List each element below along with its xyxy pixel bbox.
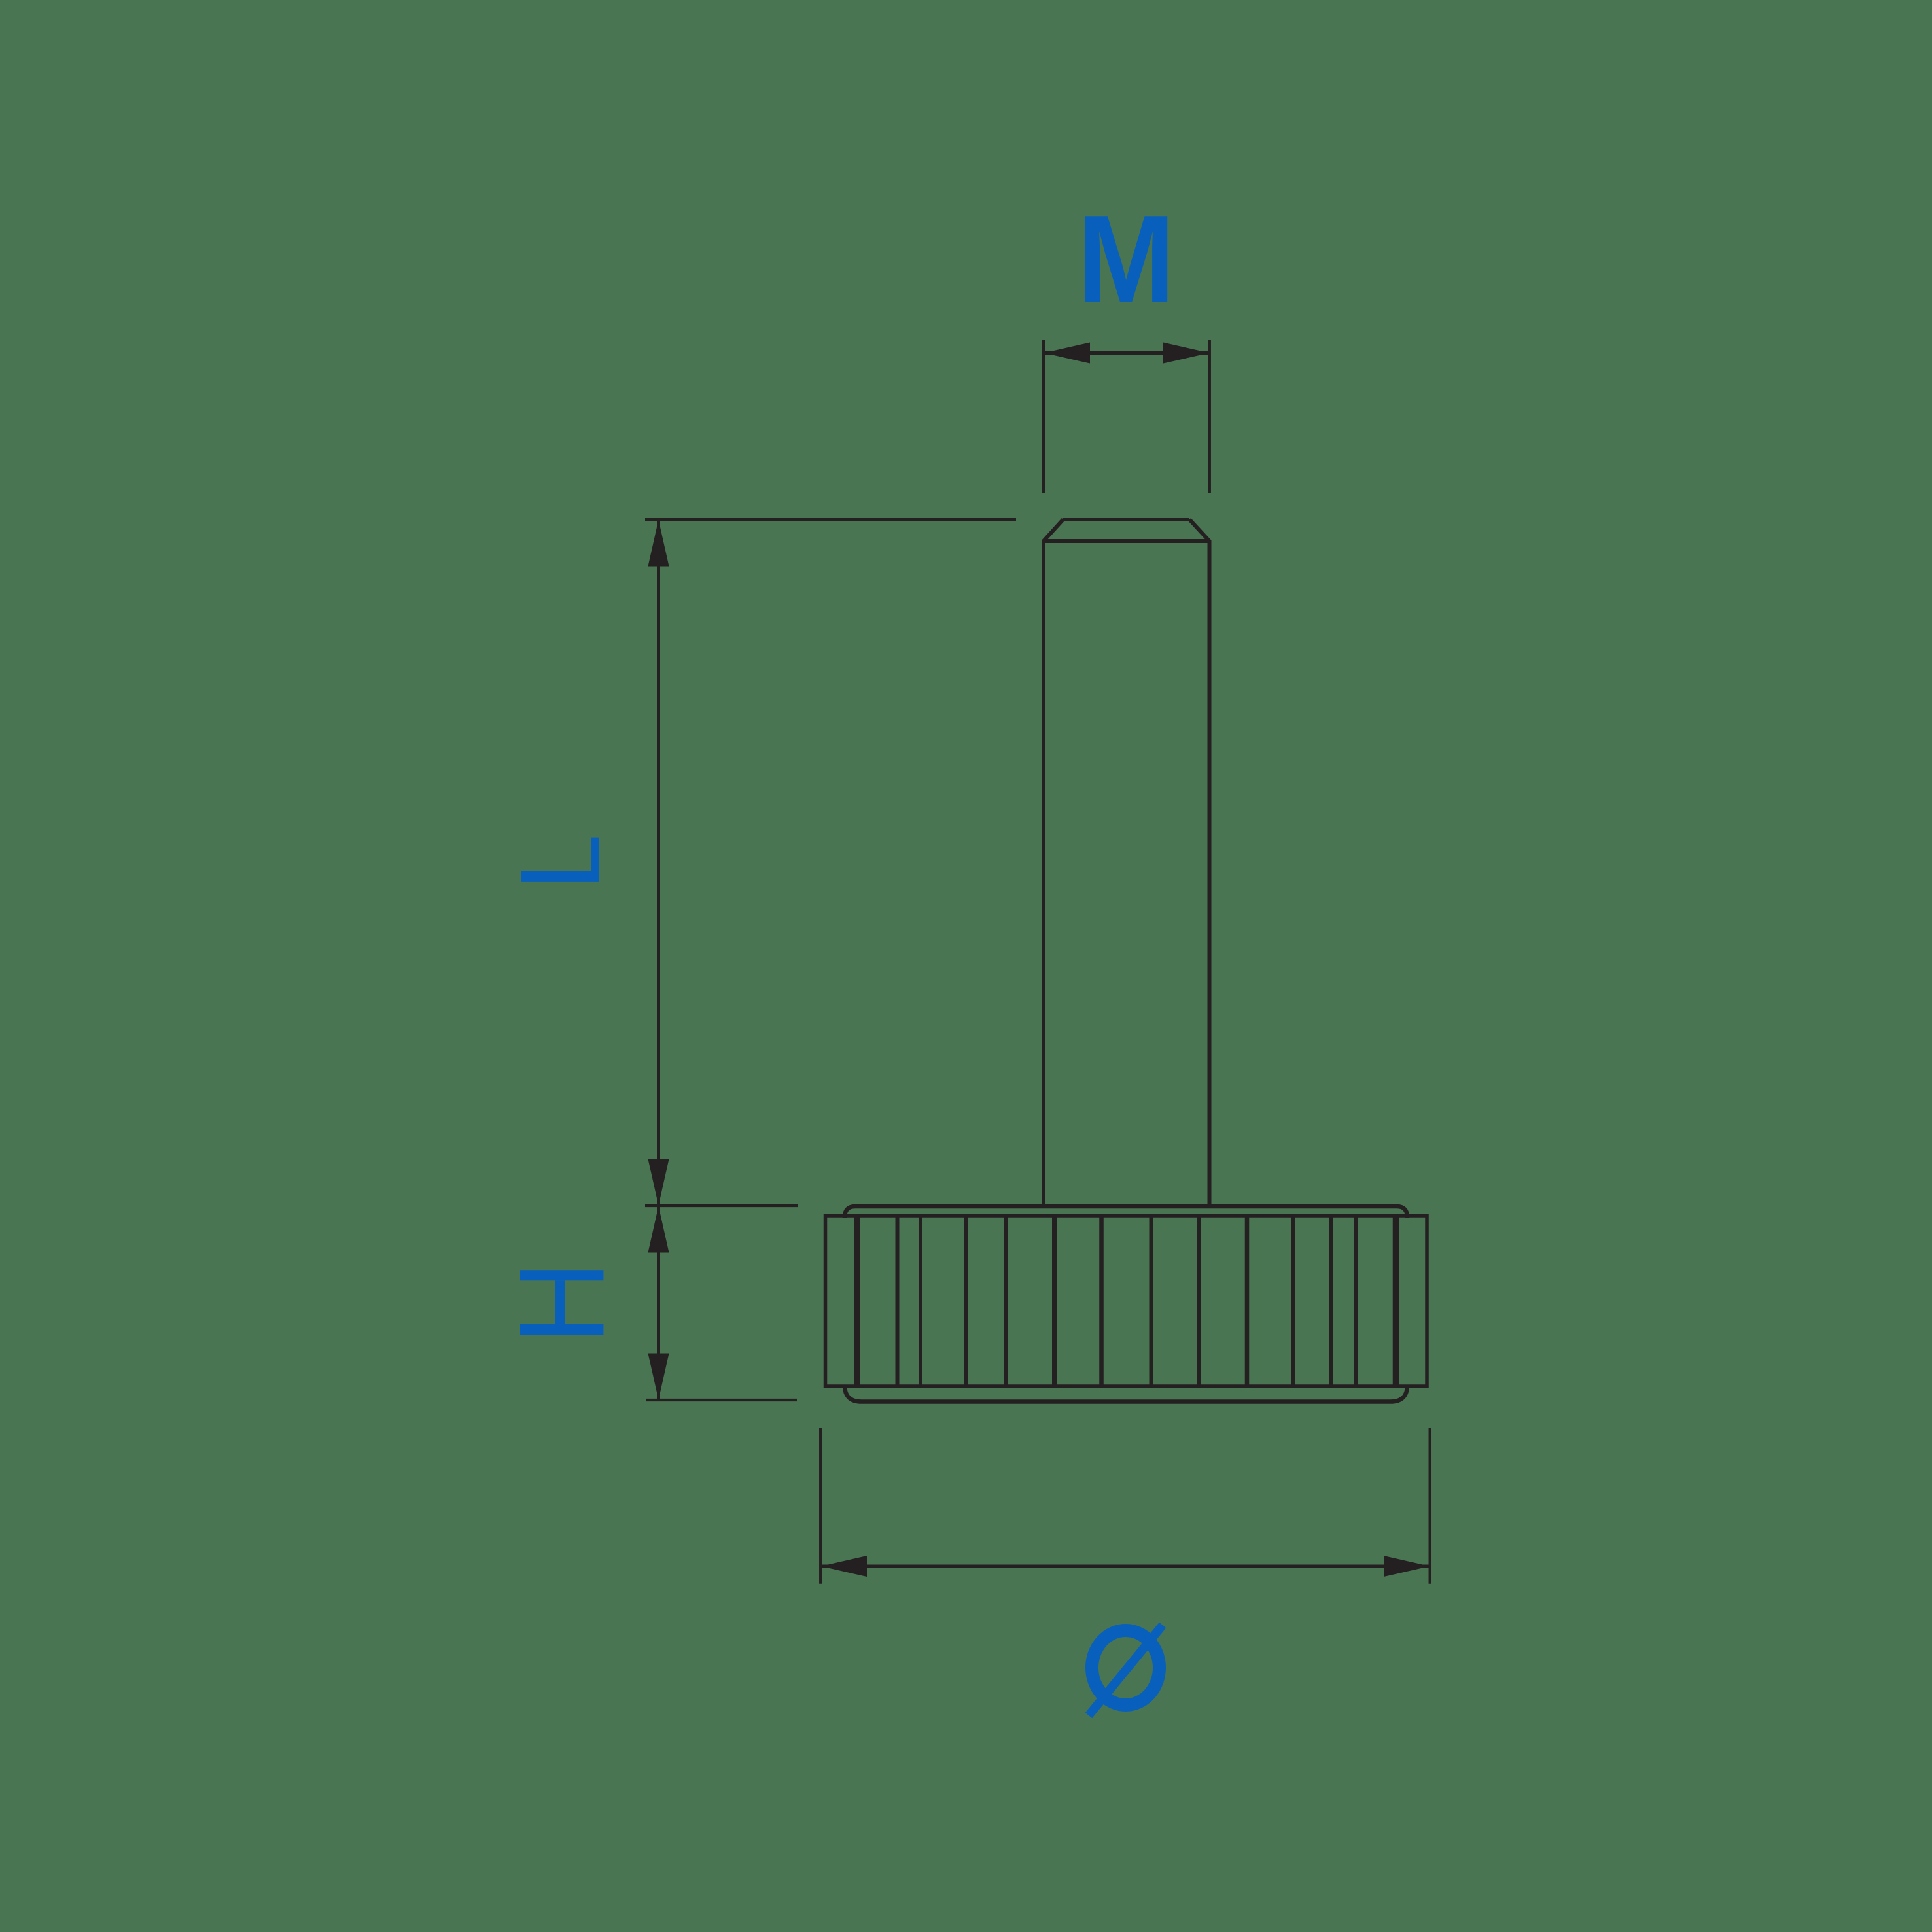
knurl tooth line 5 <box>1004 1216 1008 1386</box>
base body bottom outline <box>845 1385 1407 1402</box>
dimension diameter left extension line <box>819 1428 822 1584</box>
arrowhead M right <box>1163 343 1210 364</box>
arrowhead H top <box>648 1206 669 1253</box>
knurl tooth line 14 <box>1393 1216 1399 1386</box>
knurl tooth line 4 <box>964 1216 968 1386</box>
arrowhead M left <box>1044 343 1091 364</box>
arrowhead diameter right <box>1384 1556 1430 1577</box>
dimension L line <box>657 519 660 1206</box>
knurl tooth line 7 <box>1099 1216 1104 1386</box>
dimension L/H middle extension line <box>645 1204 798 1207</box>
dimension M line <box>1044 351 1210 355</box>
arrowhead diameter left <box>821 1556 868 1577</box>
dimension M left extension line <box>1042 340 1045 493</box>
stem right chamfer and side <box>1189 519 1210 1206</box>
dimension diameter right extension line <box>1429 1428 1431 1584</box>
stem left chamfer and side <box>1044 519 1063 1206</box>
knurl tooth line 3 <box>919 1216 922 1386</box>
arrowhead L bottom <box>648 1159 669 1206</box>
dimension L top extension line <box>645 518 1016 521</box>
dimension M right extension line <box>1208 340 1211 493</box>
arrowhead H bottom <box>648 1354 669 1400</box>
dimension H bottom extension line <box>646 1399 797 1401</box>
arrowhead L top <box>648 520 669 567</box>
dimension diameter line <box>820 1565 1430 1568</box>
knurl tooth line 9 <box>1197 1216 1201 1386</box>
knurl tooth line 1 <box>854 1216 860 1386</box>
label L <box>521 838 599 882</box>
knurl tooth line 13 <box>1354 1216 1358 1386</box>
dimension H line <box>657 1206 660 1400</box>
knurl tooth line 8 <box>1150 1216 1153 1386</box>
label H <box>520 1270 603 1335</box>
knurl tooth line 11 <box>1291 1216 1295 1386</box>
knurl tooth line 6 <box>1052 1216 1057 1386</box>
stem shoulder line <box>1044 539 1210 543</box>
knurl tooth line 12 <box>1329 1216 1333 1386</box>
knurl band rectangle <box>826 1216 1428 1386</box>
svg-text:M: M <box>1077 190 1175 328</box>
label diameter <box>1089 1625 1163 1715</box>
stem top line <box>1063 518 1189 521</box>
knurl tooth line 2 <box>896 1216 900 1386</box>
knurl tooth line 10 <box>1245 1216 1250 1386</box>
base body top outline <box>845 1206 1407 1218</box>
